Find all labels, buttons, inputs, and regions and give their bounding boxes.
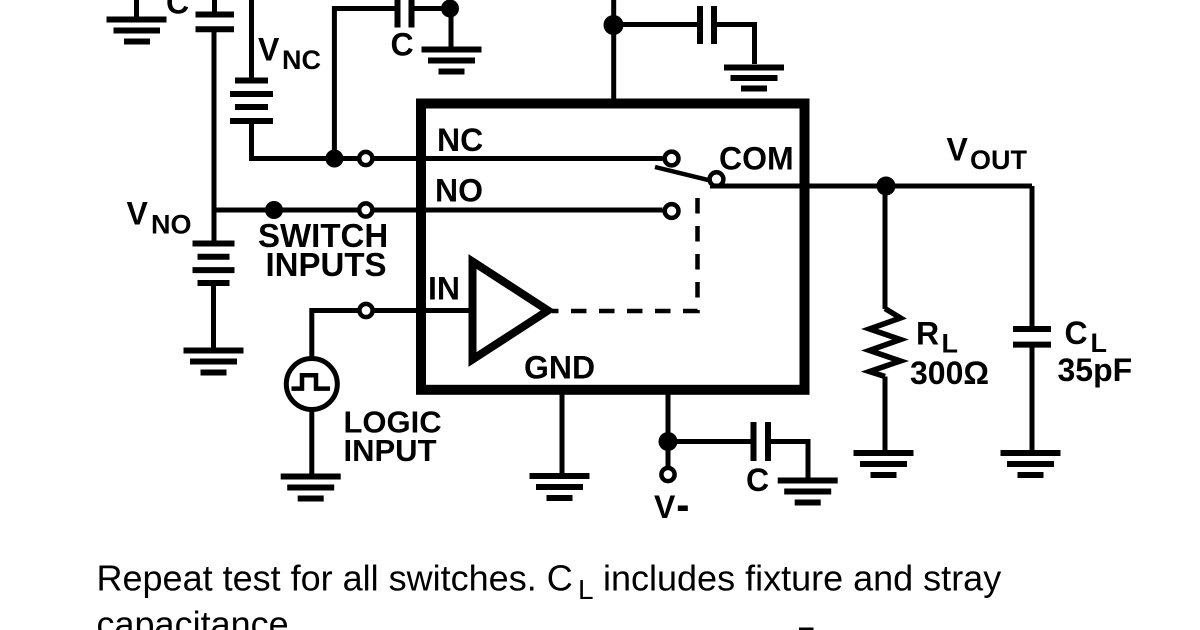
capacitor CL	[1013, 329, 1051, 345]
capacitor C1	[196, 0, 235, 29]
wire V- pin	[666, 390, 671, 442]
wire junction to resistor RL	[883, 186, 888, 309]
wire V- stub to terminal	[666, 442, 671, 467]
node NC junction	[325, 150, 343, 168]
svg-text:INPUT: INPUT	[344, 433, 437, 468]
terminal circle V-	[661, 468, 674, 481]
capacitor C3	[700, 6, 714, 44]
svg-text:COM: COM	[719, 141, 794, 177]
wire battery B1 to NC line	[252, 124, 421, 159]
capacitor C2	[398, 0, 412, 28]
wire C2 to node	[415, 6, 451, 11]
node above ground G2	[441, 0, 459, 18]
ground G8	[854, 453, 914, 475]
switch contact circle COM	[710, 172, 724, 186]
wire IN line	[312, 311, 473, 357]
svg-text:includes fixture and stray: includes fixture and stray	[603, 558, 1001, 599]
dashed control line	[552, 198, 698, 311]
ground G3	[724, 68, 784, 89]
wire B2 to ground G4	[211, 286, 216, 348]
node V- junction	[659, 432, 678, 451]
ground G2	[422, 9, 482, 72]
wire NC line into box	[420, 156, 663, 161]
caption line 1	[97, 558, 1002, 606]
svg-text:C: C	[1065, 315, 1088, 351]
switch lever	[655, 167, 713, 181]
pulse source circle	[286, 359, 337, 410]
svg-text:IN: IN	[428, 271, 460, 307]
svg-text:OUT: OUT	[970, 145, 1028, 175]
pulse waveform glyph	[292, 375, 331, 388]
svg-text:INPUTS: INPUTS	[266, 246, 387, 283]
battery B1 V_NC	[230, 81, 273, 122]
svg-text:NO: NO	[151, 210, 192, 240]
svg-text:35pF: 35pF	[1058, 352, 1133, 388]
wire RL to ground G8	[883, 377, 888, 451]
label V_OUT	[947, 132, 1028, 176]
svg-text:R: R	[916, 316, 939, 352]
svg-text:capacitance.: capacitance.	[97, 604, 299, 630]
ground G1 top-left	[107, 0, 167, 42]
ground G7	[778, 481, 838, 503]
wire GND pin to ground G6	[560, 390, 565, 474]
switch contact circle NO	[665, 204, 679, 218]
wire C3 to ground G3	[717, 25, 755, 65]
svg-text:NC: NC	[437, 122, 483, 158]
partial glyph next line	[799, 628, 814, 630]
battery B2 V_NO	[193, 244, 235, 284]
wire V+ rail	[611, 0, 616, 104]
terminal circle NC input	[359, 152, 372, 165]
svg-text:C: C	[166, 0, 189, 21]
resistor RL zigzag	[870, 309, 901, 377]
label LOGIC INPUT	[344, 405, 442, 469]
label V_NO	[127, 196, 192, 240]
wire NO line	[214, 208, 663, 213]
wire CL to ground G9	[1030, 348, 1035, 451]
svg-text:300Ω: 300Ω	[910, 355, 989, 391]
wire COM to V_OUT	[710, 184, 1032, 189]
wire V+ to capacitor C3	[614, 22, 698, 27]
wire V_OUT down to CL	[1030, 186, 1035, 327]
ground G6	[530, 476, 590, 498]
svg-text:V: V	[258, 32, 280, 68]
wire V_NC rail	[249, 0, 254, 78]
terminal circle NO input	[359, 203, 372, 216]
label V_NC	[258, 32, 321, 76]
capacitor C4	[754, 422, 769, 461]
terminal circle IN input	[359, 304, 372, 317]
svg-text:V: V	[947, 132, 969, 168]
svg-text:C: C	[746, 462, 769, 498]
node NO junction dot	[265, 201, 283, 219]
svg-text:NC: NC	[282, 45, 321, 75]
node V+ junction	[604, 15, 624, 35]
svg-text:GND: GND	[524, 350, 595, 386]
label CL	[1065, 315, 1108, 358]
svg-text:V: V	[127, 196, 149, 232]
wire V_NO rail	[212, 32, 217, 241]
wire C4 to ground G7	[771, 442, 808, 478]
label SWITCH INPUTS	[258, 217, 388, 283]
svg-text:C: C	[391, 27, 414, 63]
ground G5	[281, 477, 341, 499]
svg-text:NO: NO	[435, 173, 483, 209]
ground G4	[184, 351, 244, 373]
label RL	[916, 316, 958, 359]
svg-text:L: L	[942, 329, 959, 359]
wire NC rail up to capacitor C2	[334, 9, 394, 159]
ground G9	[1001, 453, 1061, 475]
IC box U1	[421, 104, 805, 390]
wire pulse source to ground G5	[309, 410, 314, 475]
switch contact circle NC	[665, 152, 679, 166]
svg-text:V: V	[654, 489, 676, 525]
wire V- node to capacitor C4	[668, 439, 751, 444]
svg-text:Repeat test for all switches.: Repeat test for all switches. C	[97, 558, 573, 599]
svg-text:L: L	[578, 574, 594, 605]
op-amp buffer triangle	[473, 262, 549, 360]
node V_OUT junction	[877, 177, 896, 196]
